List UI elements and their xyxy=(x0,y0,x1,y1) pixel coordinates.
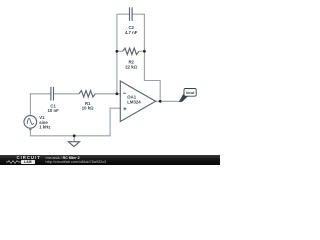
svg-text:10 nF: 10 nF xyxy=(47,108,59,113)
svg-text:22 kΩ: 22 kΩ xyxy=(125,65,137,70)
svg-text:Vout: Vout xyxy=(186,90,195,95)
svg-text:1 kHz: 1 kHz xyxy=(39,124,50,129)
svg-text:LM324: LM324 xyxy=(127,100,141,105)
svg-text:10 kΩ: 10 kΩ xyxy=(82,106,94,111)
svg-text:4.7 nF: 4.7 nF xyxy=(125,30,138,35)
